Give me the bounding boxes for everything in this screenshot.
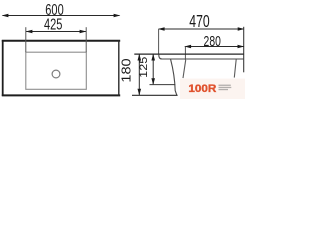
svg-text:280: 280 [204,32,221,50]
svg-text:470: 470 [189,12,209,32]
svg-text:180: 180 [118,58,133,83]
svg-text:425: 425 [44,15,63,32]
svg-text:100R: 100R [188,83,216,95]
svg-text:125: 125 [137,56,150,78]
